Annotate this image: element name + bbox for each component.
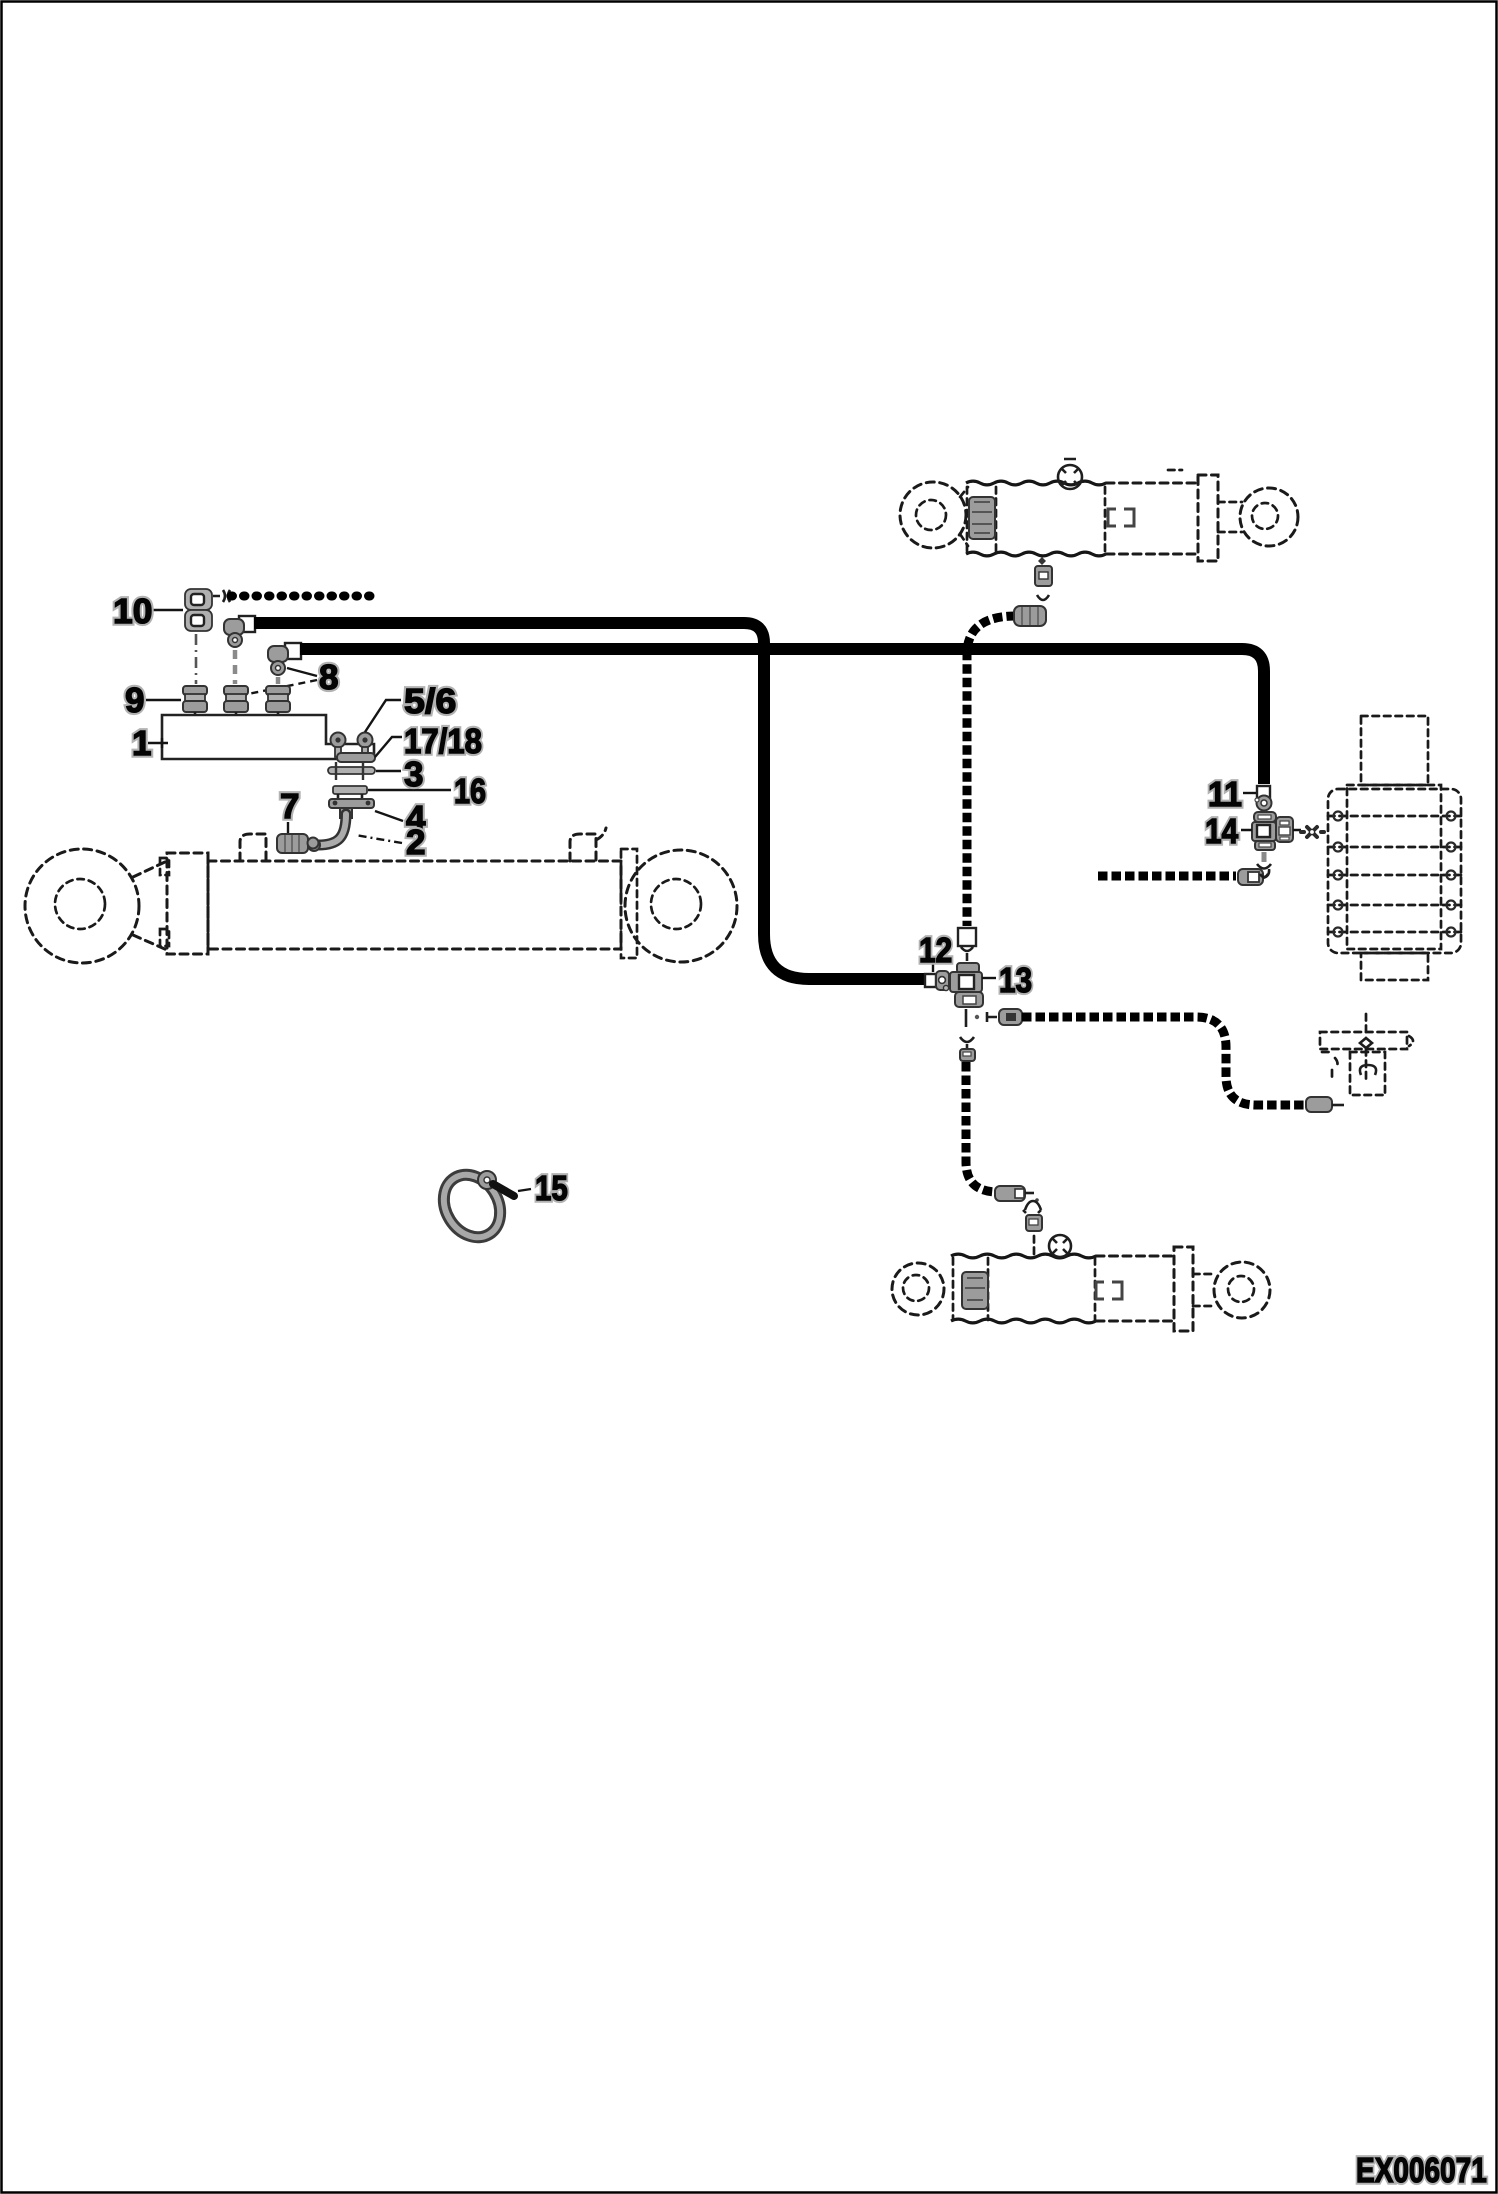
- wire gray dash below elbow B: [276, 677, 281, 684]
- wire dash-dot below clamp 10: [195, 634, 198, 684]
- bottom cylinder: left edges: [953, 1258, 988, 1320]
- top cylinder: right section: [1106, 483, 1200, 554]
- valve block bottom tab: [1361, 953, 1428, 980]
- fitting on manifold at x=195: [183, 686, 207, 716]
- label 2: [407, 830, 424, 854]
- cable tie head: [478, 1171, 496, 1189]
- leader 3: [376, 770, 401, 772]
- valve block band y=932: [1328, 931, 1461, 934]
- left cylinder: rod eye outer right: [625, 850, 737, 962]
- valve block inner body: [1347, 785, 1441, 949]
- small bracket: left marks: [1322, 1052, 1338, 1078]
- drawing number EX006071: [1358, 2158, 1486, 2183]
- left cylinder: rod eye inner: [55, 879, 105, 929]
- bottom cylinder: wavy bottom: [951, 1319, 1096, 1323]
- top cylinder: rod eye inner: [1252, 503, 1278, 529]
- fitting on manifold at x=278: [266, 686, 290, 716]
- manifold block 1: [162, 715, 374, 759]
- clamp 10: [185, 589, 230, 631]
- top cylinder: tiny top dashes: [1168, 469, 1182, 472]
- hose B (lower thick): [300, 649, 1264, 784]
- label 1: [134, 731, 150, 755]
- bottom cylinder: grease fitting: [1049, 1235, 1071, 1257]
- bottom cylinder: snap rings: [1096, 1282, 1122, 1299]
- hose end square on chain above tee: [958, 928, 976, 946]
- leader 13: [982, 977, 996, 979]
- label 13: [1001, 968, 1031, 993]
- bottom cylinder: rod eye outer: [1214, 1262, 1270, 1318]
- leader 5/6: [365, 700, 401, 732]
- elbow fitting at hose A start: [224, 616, 255, 647]
- top cylinder: neck: [960, 487, 968, 546]
- leader 1: [148, 738, 168, 748]
- elbow fitting at hose B start: [268, 643, 301, 675]
- fittings 5/6 on ledge: [331, 733, 373, 758]
- label 10: [115, 599, 151, 624]
- chain right of tee 13: [966, 1009, 997, 1027]
- tee part 4: [329, 799, 374, 818]
- leader 14: [1241, 829, 1301, 831]
- bottom cylinder: piston: [962, 1272, 988, 1309]
- left cylinder: neck: [133, 861, 167, 950]
- left cylinder: rod eye outer: [25, 849, 139, 963]
- wire dotted line from clamp 10: [231, 592, 378, 601]
- port ticks bottom cylinder: [1033, 1236, 1036, 1254]
- small bracket: omega mark: [1360, 1065, 1376, 1075]
- leader 8: [287, 668, 317, 676]
- small bracket: top dashed rect: [1320, 1032, 1407, 1049]
- cylinder port elbow right (dashed): [570, 828, 606, 861]
- fitting at right end of chain: [1306, 1097, 1332, 1112]
- fitting on manifold at x=236: [224, 686, 248, 716]
- leader 4: [375, 811, 403, 821]
- plate part 16: [333, 786, 367, 799]
- valve block band y=875: [1328, 874, 1461, 877]
- curl below elbow: [1023, 1201, 1041, 1213]
- label 3: [405, 762, 422, 787]
- left cylinder: rod eye inner right: [651, 879, 701, 929]
- bottom chain elbow fitting: [995, 1186, 1039, 1202]
- label 17/18: [406, 728, 481, 754]
- bar 17/18: [337, 753, 375, 762]
- label 7: [282, 794, 298, 818]
- tube part 3: [328, 762, 375, 780]
- bottom cylinder: rod eye inner: [1228, 1276, 1254, 1302]
- valve block top tab: [1361, 716, 1428, 785]
- top cylinder: grease fitting: [1058, 459, 1082, 489]
- small bracket: right cap: [1409, 1036, 1413, 1046]
- top cylinder: left eye outer: [900, 482, 966, 548]
- valve block band y=816: [1328, 815, 1461, 818]
- elbow fitting into chain: [1014, 606, 1046, 626]
- bottom cylinder: rod neck: [1193, 1274, 1215, 1306]
- valve block band y=905: [1328, 904, 1461, 907]
- top cylinder: left edge: [967, 487, 996, 551]
- label 16: [456, 779, 485, 804]
- tee 13: [950, 963, 983, 1007]
- top cylinder: rod cap: [1198, 475, 1218, 561]
- cross mark right of tee 14: [1301, 827, 1324, 837]
- coupling part 7: [277, 834, 319, 853]
- leader 16: [368, 789, 451, 791]
- leader 12: [932, 963, 934, 972]
- label 9: [126, 688, 143, 713]
- leader 11: [1243, 792, 1256, 794]
- bottom cylinder: divider: [1094, 1258, 1097, 1320]
- top cylinder: left eye inner: [916, 500, 946, 530]
- bottom cylinder: left eye outer: [892, 1263, 944, 1315]
- valve block band y=847: [1328, 846, 1461, 849]
- top cylinder: divider: [1104, 487, 1107, 551]
- cylinder port elbow left (dashed): [240, 834, 266, 861]
- label 15: [537, 1176, 567, 1200]
- top cylinder: rod neck: [1218, 502, 1242, 532]
- wire gray dash below elbow A: [233, 650, 238, 684]
- leader 17/18: [375, 737, 402, 757]
- top cylinder: piston: [969, 497, 995, 539]
- top cylinder: wavy top: [966, 481, 1106, 485]
- chain below tee 13 to bottom cylinder: [960, 1037, 974, 1049]
- label 11: [1210, 782, 1241, 806]
- label 5/6: [405, 688, 455, 714]
- label 12: [921, 938, 951, 962]
- chain left of tee 14: [1098, 872, 1236, 881]
- cable tie ring part 15: [432, 1164, 511, 1248]
- bottom cylinder: rod cap: [1174, 1247, 1193, 1331]
- nut above bottom cylinder port: [1026, 1215, 1042, 1231]
- valve block outer body: [1328, 789, 1461, 953]
- left cylinder: barrel: [208, 861, 621, 949]
- small bracket: diamond: [1360, 1038, 1372, 1048]
- leader 7: [287, 822, 289, 833]
- leader 2 (dash-dot): [355, 835, 402, 843]
- small bracket: lower rect: [1350, 1052, 1385, 1095]
- curl under nut: [1037, 595, 1049, 600]
- leader 10: [152, 609, 183, 611]
- tee 14: [1252, 812, 1293, 877]
- bottom cylinder: wavy top: [951, 1254, 1096, 1258]
- hose A (upper thick): [254, 623, 928, 979]
- top cylinder: port ticks: [1038, 557, 1046, 565]
- leader 9: [146, 699, 181, 701]
- fitting 12: [925, 971, 949, 991]
- label 8: [320, 665, 337, 690]
- bottom cylinder: right section: [1096, 1256, 1174, 1321]
- bottom cylinder: left eye inner: [903, 1275, 929, 1301]
- top cylinder: wavy bottom: [966, 552, 1106, 556]
- pipe part 2: [308, 814, 346, 851]
- nut under top cylinder port: [1035, 566, 1052, 586]
- top cylinder: snap rings: [1108, 509, 1134, 526]
- left cylinder: head plate: [167, 853, 208, 954]
- top cylinder: rod eye outer: [1240, 488, 1298, 546]
- fitting 11: [1255, 786, 1272, 811]
- label 4: [407, 806, 426, 830]
- chain from top cylinder to tee 13: [967, 616, 1016, 926]
- leader 15: [518, 1189, 531, 1191]
- label 14: [1207, 819, 1238, 843]
- cable tie tail: [493, 1184, 514, 1196]
- small bracket: vertical line: [1365, 1014, 1368, 1082]
- left cylinder: gland cap: [621, 849, 637, 958]
- left cylinder: head bumps: [160, 858, 169, 875]
